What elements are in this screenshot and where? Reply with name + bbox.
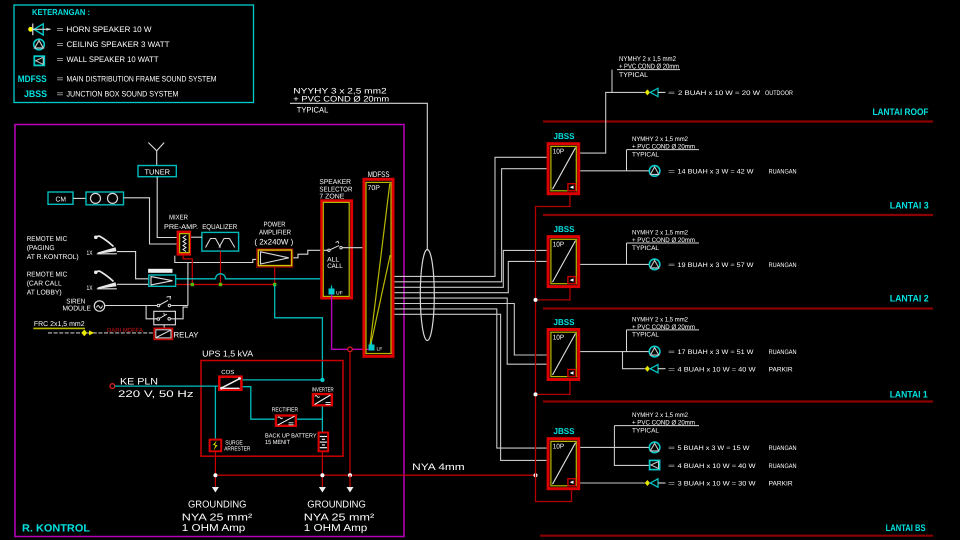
wire mixer bottom to amp input line [175,256,256,263]
label BS speakers [668,445,797,488]
label ALL CALL [327,256,343,270]
svg-text:JUNCTION BOX SOUND SYSTEM: JUNCTION BOX SOUND SYSTEM [67,90,179,99]
wire switch to vertical node [171,305,188,307]
inverter box [313,394,332,405]
microphone paging [94,236,117,254]
legend wall speaker symbol [34,56,44,65]
L1 ceiling feed wire [580,351,649,353]
mixer pre-amp box [178,232,190,254]
label L1 speakers [668,349,797,373]
label LANTAI BS [886,523,926,534]
svg-text:AT R.KONTROL): AT R.KONTROL) [27,253,79,261]
cable label NYYHY 3x2,5 mm2 riser [293,86,389,114]
svg-text:=: = [668,481,675,488]
svg-text:1 OHM Amp: 1 OHM Amp [182,523,246,534]
wire zone 5 trunk [395,298,547,364]
svg-text:REMOTE MIC: REMOTE MIC [27,272,67,279]
speaker selector box [322,201,352,298]
label KE PLN 220 V, 50 Hz [118,376,194,400]
svg-text:=: = [57,25,64,34]
svg-text:3 BUAH x 10 W = 30 W: 3 BUAH x 10 W = 30 W [678,481,757,488]
svg-text:TYPICAL: TYPICAL [619,72,648,79]
svg-text:1X: 1X [87,250,93,257]
wire tuner to mixer input 1 [157,177,176,238]
svg-text:MODULE: MODULE [63,305,92,312]
switch TR1 [157,297,171,307]
label FRC 2x1,5 mm2 [33,321,85,328]
svg-text:TYPICAL: TYPICAL [632,151,659,158]
wire zone 8 trunk [395,314,547,460]
svg-text:JBSS: JBSS [554,426,575,436]
svg-text:MAIN DISTRIBUTION FRAME SOUND: MAIN DISTRIBUTION FRAME SOUND SYSTEM [67,75,217,84]
aux switch box [154,311,176,325]
svg-text:19 BUAH x 3 W = 57 W: 19 BUAH x 3 W = 57 W [678,262,755,269]
svg-text:CALL: CALL [327,263,343,270]
L1 horn feed branch [623,352,645,369]
svg-text:PRE-AMP.: PRE-AMP. [164,224,198,231]
label SIREN MODULE [63,299,92,313]
svg-text:JBSS: JBSS [554,131,575,141]
label INVERTER [312,387,334,394]
svg-text:PARKIR: PARKIR [769,366,793,373]
ground arrow 2 [319,487,326,493]
changeover switch COS [219,377,241,390]
svg-text:TYPICAL: TYPICAL [632,427,659,434]
wire mixer out to equalizer [191,236,202,238]
svg-text:LANTAI 2: LANTAI 2 [890,294,929,305]
wire aux switch out [171,307,188,319]
relay K1 [154,328,172,339]
svg-text:=: = [57,40,64,49]
svg-text:17 BUAH x 3 W = 51 W: 17 BUAH x 3 W = 51 W [678,349,755,356]
svg-text:10P: 10P [553,241,565,248]
label GROUNDING NYA 25 mm2 1 OHM Amp right [304,500,375,534]
BS ceiling feed wire [580,446,649,448]
node KE PLN terminal [110,384,115,389]
svg-text:RECTIFIER: RECTIFIER [272,406,299,413]
cable label roof [612,56,680,92]
wire zone 2 trunk [395,169,547,282]
svg-text:UF: UF [336,290,343,296]
label L2 speakers [668,262,797,269]
BS horn feed wire [580,482,645,484]
svg-text:=: = [668,168,675,175]
svg-text:FRC 2x1,5 mm2: FRC 2x1,5 mm2 [34,321,85,328]
wire tape deck to mixer input 2 [124,198,177,244]
MDFSS main frame box [364,179,393,356]
svg-text:SURGE: SURGE [225,440,243,447]
legend JBSS row [24,89,179,100]
node junction dots on NYA bus [213,473,537,477]
svg-text:=: = [57,75,64,84]
wire inverter battery vertical [321,407,323,432]
label MDFSS [368,170,390,179]
label 1X paging [87,250,93,257]
horn speaker L1 [645,365,666,373]
svg-text:SELECTOR: SELECTOR [319,186,352,193]
label REMOTE MIC (PAGING AT R.KONTROL) [27,236,79,261]
ground arrow 3 [347,487,354,493]
label LANTAI 2 [890,294,929,305]
label R. KONTROL [22,523,91,535]
wall speaker BS [650,460,660,469]
svg-text:JBSS: JBSS [554,224,575,234]
connector LF MDFSS bottom [369,342,383,353]
svg-text:MDFSS: MDFSS [18,74,47,85]
svg-text:HORN SPEAKER 10 W: HORN SPEAKER 10 W [67,25,152,34]
svg-text:LANTAI 1: LANTAI 1 [890,390,929,401]
svg-text:KETERANGAN :: KETERANGAN : [32,7,90,17]
junction box JBSS lantai BS [548,426,579,489]
svg-text:INVERTER: INVERTER [312,387,334,394]
label EQUALIZER [202,224,237,231]
label LANTAI ROOF [873,107,929,118]
floor line LANTAI ROOF [543,120,933,122]
cable label L1 [627,316,700,351]
label GROUNDING NYA 25 mm2 1 OHM Amp left [182,500,253,534]
svg-text:1X: 1X [87,285,93,292]
floor line LANTAI 1 [543,400,933,402]
svg-text:JBSS: JBSS [24,89,47,100]
power amplifier box U-PA [258,250,292,266]
wire NYA 4mm bus [215,474,535,476]
svg-text:DARI MDFFA: DARI MDFFA [107,327,143,334]
label SURGE ARRESTER [224,440,251,453]
cable label L3 [627,136,700,171]
svg-text:PARKIR: PARKIR [769,481,793,488]
svg-text:1 OHM Amp: 1 OHM Amp [304,523,368,534]
floor line LANTAI BS [540,535,933,537]
surge arrester box [210,440,222,452]
rectifier box [276,416,296,426]
wire node down from amp line [187,263,189,306]
svg-text:ARRESTER: ARRESTER [224,446,251,453]
mic pre-amplifier box [149,275,176,286]
wire rectifier to battery line [297,418,322,420]
equalizer box [202,232,239,251]
antenna [148,143,164,166]
svg-text:MIXER: MIXER [169,214,188,221]
svg-text:COS: COS [221,369,234,376]
wire red link JBSS lantai2 [536,288,571,300]
wire third grounding drop [349,475,351,487]
wire KE PLN mains to COS [115,385,218,387]
wire surge arrester feed [214,386,216,439]
ceiling speaker L3 [649,166,660,177]
wire riser label leader to ellipse [290,103,427,250]
svg-text:TYPICAL: TYPICAL [297,105,329,114]
junction box JBSS lantai 3 [548,131,579,194]
label LANTAI 1 [890,390,929,401]
ceiling speaker L2 [649,259,660,270]
svg-text:POWER: POWER [264,221,286,228]
label 1X car call [87,285,93,292]
node red circle on magenta link [348,347,353,352]
svg-text:70P: 70P [368,185,381,192]
label MIXER PRE-AMP. [164,214,198,231]
legend box KETERANGAN [14,5,254,103]
battery box [319,433,329,452]
legend ceiling speaker text [57,40,170,49]
legend ceiling speaker symbol [34,39,45,50]
svg-text:4 BUAH x 10 W = 40 W: 4 BUAH x 10 W = 40 W [678,463,757,470]
svg-text:=: = [668,445,675,452]
svg-text:GROUNDING: GROUNDING [188,500,247,511]
svg-text:+ PVC COND Ø 20mm: + PVC COND Ø 20mm [293,95,389,104]
svg-text:RELAY: RELAY [174,331,200,340]
svg-text:MDFSS: MDFSS [368,170,390,179]
junction box JBSS lantai 1 [548,317,579,380]
svg-text:( 2x240W ): ( 2x240W ) [254,238,293,247]
junction box JBSS lantai 2 [548,224,579,287]
svg-text:=: = [57,55,64,64]
svg-text:RUANGAN: RUANGAN [769,463,797,470]
wire zone 3 trunk [395,250,547,287]
legend horn speaker symbol [28,24,51,36]
svg-text:REMOTE MIC: REMOTE MIC [27,236,67,243]
wire car call mic to mic amp [117,283,149,285]
cable label L2 [627,229,700,264]
svg-text:220 V, 50 Hz: 220 V, 50 Hz [118,389,194,400]
svg-text:LANTAI BS: LANTAI BS [886,523,926,534]
wire paging mic to mic amp [117,252,149,279]
svg-text:NYMHY 2 x 1,5 mm2: NYMHY 2 x 1,5 mm2 [619,56,676,63]
wire cyan UPS feed down [275,285,323,380]
svg-text:NYMHY 2 x 1,5 mm2: NYMHY 2 x 1,5 mm2 [632,316,688,323]
connector UF selector bottom [329,286,343,297]
microphone car call [94,271,117,289]
svg-text:14 BUAH x 3 W = 42 W: 14 BUAH x 3 W = 42 W [678,168,755,175]
ground arrow 1 [212,487,219,493]
wire zone 7 trunk [395,309,547,448]
label POWER AMPLIFIER (2x240W) [254,221,293,246]
svg-text:JBSS: JBSS [554,317,575,327]
wire COS to inverter node [243,379,323,381]
horn speaker BS [645,479,666,487]
ceiling speaker BS [649,442,660,453]
svg-text:10P: 10P [553,334,565,341]
svg-text:=: = [668,262,675,269]
svg-text:RUANGAN: RUANGAN [769,168,797,175]
ROOF horn feed wire [580,92,645,153]
svg-text:LF: LF [377,346,383,352]
label COS [221,369,234,376]
svg-text:5 BUAH x 3 W = 15 W: 5 BUAH x 3 W = 15 W [678,445,751,452]
svg-text:=: = [668,349,675,356]
svg-text:RUANGAN: RUANGAN [769,445,797,452]
svg-text:(CAR CALL: (CAR CALL [27,280,62,288]
node riser junction dots [534,298,538,397]
wire cyan audio line to selector with hop [176,274,321,279]
svg-text:AT LOBBY): AT LOBBY) [27,288,62,296]
horn speaker roof [645,88,666,96]
svg-text:LANTAI 3: LANTAI 3 [890,201,929,212]
wire grounding drop left [214,452,216,487]
svg-text:=: = [668,366,675,373]
R.KONTROL room boundary [15,125,404,537]
wire branch down to aux switch [146,306,157,319]
svg-text:WALL SPEAKER 10 WATT: WALL SPEAKER 10 WATT [67,55,159,64]
svg-text:TYPICAL: TYPICAL [632,245,659,252]
wire zone 1 trunk [395,157,547,276]
wire magenta paging link [332,295,370,350]
cassette monitor CM box [48,192,73,204]
svg-text:UPS 1,5 kVA: UPS 1,5 kVA [202,348,253,358]
ceiling speaker L1 [649,346,660,357]
white bar device [148,269,172,273]
svg-text:4 BUAH x 10 W = 40 W: 4 BUAH x 10 W = 40 W [678,366,757,373]
wire aux switch to relay [163,325,165,329]
svg-text:GROUNDING: GROUNDING [307,500,366,511]
svg-text:RUANGAN: RUANGAN [769,262,797,269]
tuner U-TUNER [138,166,176,177]
svg-text:OUTDOOR: OUTDOOR [765,90,793,97]
svg-text:10P: 10P [553,149,565,156]
node yellow diamond on FRC wire [81,330,94,337]
tape deck [86,192,124,205]
cable label BS [614,412,699,447]
label L3 speakers [668,168,797,175]
svg-text:TYPICAL: TYPICAL [632,332,659,339]
svg-text:2 BUAH x 10 W = 20 W: 2 BUAH x 10 W = 20 W [678,90,761,97]
wire red down to grounding bus [349,352,351,476]
svg-text:=: = [668,463,675,470]
label BACK UP BATTERY 15 MENIT [265,433,317,446]
label SPEAKER SELECTOR 7 ZONE [319,179,352,200]
floor line LANTAI 2 [543,307,933,309]
wire zone 4 trunk [395,261,547,292]
L2 ceiling feed wire [580,263,649,265]
wire siren to switch [105,305,158,307]
L3 ceiling feed wire [580,170,649,172]
node green junction dots on power bus [191,283,277,286]
BS wall feed branch [614,447,648,465]
svg-text:TUNER: TUNER [145,168,171,177]
svg-text:NYA 4mm: NYA 4mm [412,462,465,473]
wire red riser main [536,195,572,501]
svg-text:R. KONTROL: R. KONTROL [22,523,91,535]
svg-text:10P: 10P [553,444,565,451]
legend title KETERANGAN : [32,7,90,17]
label LANTAI 3 [890,201,929,212]
label RELAY [174,331,200,340]
label REMOTE MIC (CAR CALL AT LOBBY) [27,272,67,297]
svg-text:LANTAI ROOF: LANTAI ROOF [873,107,929,118]
svg-text:CM: CM [56,197,67,204]
label 70P [368,185,381,192]
svg-text:EQUALIZER: EQUALIZER [202,224,237,231]
wire zone 6 trunk [395,304,547,356]
legend horn speaker text [57,25,152,34]
label DARI MDFFA [107,327,143,334]
svg-text:NYA 25 mm²: NYA 25 mm² [304,512,375,523]
svg-text:NYMHY 2 x 1,5 mm2: NYMHY 2 x 1,5 mm2 [632,412,688,419]
svg-text:(PAGING: (PAGING [27,244,55,252]
label NYA 4mm [412,462,465,473]
svg-text:NYMHY 2 x 1,5 mm2: NYMHY 2 x 1,5 mm2 [632,136,688,143]
legend wall speaker text [57,55,159,64]
switch all-call inside selector [328,241,343,251]
wire COS to rectifier [243,387,275,420]
wire grounding drop right [321,452,323,487]
wire red power bus [176,251,274,284]
svg-text:AMPLIFIER: AMPLIFIER [259,230,291,237]
node cyan dot [320,378,324,382]
label roof speakers [668,90,793,97]
wire red link JBSS lantai1 [536,381,571,394]
svg-text:CEILING SPEAKER 3 WATT: CEILING SPEAKER 3 WATT [67,40,170,49]
cable bundle ellipse [420,250,434,341]
siren module symbol [94,301,104,311]
svg-text:NYMHY 2 x 1,5 mm2: NYMHY 2 x 1,5 mm2 [632,229,688,236]
svg-text:=: = [668,90,675,97]
wire FRC fire signal to relay [48,332,154,334]
legend MDFSS row [18,74,217,85]
wire selector to MDFSS [342,247,364,249]
svg-text:NYA 25 mm²: NYA 25 mm² [182,512,253,523]
svg-text:BACK UP BATTERY: BACK UP BATTERY [265,433,317,440]
UPS enclosure box [201,361,343,457]
svg-text:RUANGAN: RUANGAN [769,349,797,356]
label UPS 1,5 kVA [202,348,253,358]
floor line LANTAI 3 [543,214,933,216]
label RECTIFIER [272,406,299,413]
svg-text:SPEAKER: SPEAKER [319,179,351,186]
wire amp out to selector [293,250,328,257]
wire CM to tape deck [73,197,86,199]
svg-text:=: = [57,90,64,99]
svg-text:15 MENIT: 15 MENIT [265,439,290,446]
